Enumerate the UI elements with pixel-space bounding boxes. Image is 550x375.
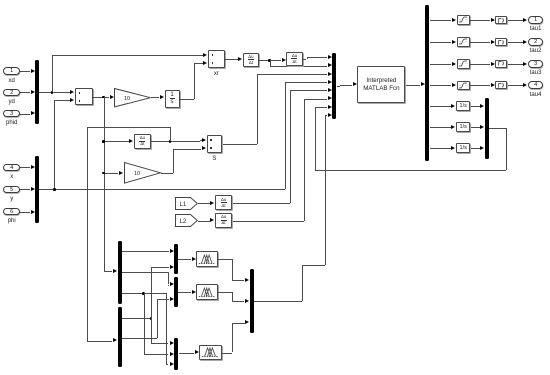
wire mux M8 out bbox=[254, 301, 302, 302]
inport 1 xd bbox=[3, 67, 20, 74]
wire feedback down bbox=[506, 128, 507, 170]
wire riser M2 out to Sum1 in2 bbox=[54, 100, 55, 189]
wire gain 10 to integrator bbox=[151, 97, 160, 98]
wire to mux M7 in3 bbox=[166, 364, 168, 365]
inport 4 x bbox=[3, 164, 20, 171]
svg-text:10: 10 bbox=[124, 96, 130, 102]
junction derivative 3 out bbox=[169, 140, 172, 143]
wire demux D1 out7 bbox=[430, 148, 451, 149]
mux M1 (xd,yd,phid) bbox=[35, 60, 39, 124]
wire D2 out3 bbox=[122, 293, 166, 294]
transfer fcn block 1/s 2 bbox=[456, 122, 470, 132]
label tau3 bbox=[506, 70, 550, 76]
from tag L1 bbox=[175, 197, 198, 210]
wire into sum S in2 bbox=[173, 149, 202, 150]
outport 4 tau4 bbox=[528, 81, 544, 89]
wire to mux M3 in5 bbox=[290, 90, 327, 91]
wire riser to mux M3 in8 bbox=[325, 115, 326, 265]
outport 2 tau2 bbox=[528, 38, 544, 46]
wire jog bbox=[340, 85, 341, 87]
sum block xr bbox=[208, 50, 225, 68]
wire fuzzy 2 out bbox=[218, 292, 232, 293]
wire down bbox=[232, 292, 233, 301]
junction feed derivative 3 bbox=[102, 140, 105, 143]
wire L1 to derivative 4 bbox=[198, 203, 210, 204]
mux M6 fuzzy2 input bbox=[174, 277, 178, 307]
wire mux M3 out bbox=[337, 86, 340, 87]
wire phi to mux M2 bbox=[20, 212, 30, 213]
wire to mux M3 in6 bbox=[304, 99, 327, 100]
wire fuzzy 3 out bbox=[222, 353, 232, 354]
rate limiter block 2 bbox=[495, 38, 507, 46]
derivative block du/dt 1 bbox=[243, 53, 259, 67]
mux M8 fuzzy outputs bbox=[250, 269, 254, 333]
derivative block du/dt 2 bbox=[286, 52, 302, 66]
junction D2 out3 bbox=[142, 292, 145, 295]
wire fuzzy 1 out bbox=[218, 259, 232, 260]
wire to mux M3 in8 bbox=[325, 115, 327, 116]
wire to outport tau2 bbox=[508, 42, 523, 43]
wire to mux M3 in1 bbox=[307, 57, 328, 58]
wire feedback riser to mux M3 in7 bbox=[315, 107, 316, 171]
wire up bbox=[157, 299, 158, 338]
wire mux M1 out to Sum1 bbox=[39, 92, 70, 93]
label y bbox=[0, 196, 42, 202]
saturation block 1 bbox=[457, 15, 470, 25]
junction after derivative 1 bbox=[268, 59, 271, 62]
wire derivative 5 out bbox=[233, 221, 304, 222]
wire to outport tau4 bbox=[508, 85, 523, 86]
wire D3 out1 bbox=[122, 318, 151, 319]
wire riser to top rail bbox=[52, 55, 53, 92]
wire into MATLAB Fcn bbox=[340, 85, 352, 86]
wire to mux M7 in1 bbox=[151, 343, 168, 344]
wire to mux M6 in2 bbox=[157, 299, 168, 300]
wire into sum S in1 bbox=[200, 140, 202, 141]
demux D3 derivative vector bbox=[118, 307, 122, 367]
from tag L2 bbox=[175, 214, 198, 227]
wire mux M2 out rail bbox=[39, 189, 285, 190]
wire error vector down to demux D2 bbox=[104, 97, 105, 271]
wire up bbox=[232, 323, 233, 353]
wire branch down bbox=[270, 60, 271, 65]
wire branch left rail bbox=[87, 127, 170, 128]
label yd bbox=[0, 99, 42, 105]
wire to mux M7 in2 bbox=[144, 354, 169, 355]
sum block Sum1 (reference - feedback) bbox=[75, 88, 93, 105]
wire saturation 3 out bbox=[470, 64, 490, 65]
inport 5 y bbox=[3, 186, 20, 193]
wire into Sum xr in2 bbox=[194, 63, 203, 64]
wire riser to Sum xr in2 bbox=[194, 63, 195, 99]
wire feedback rail bbox=[315, 170, 506, 171]
function block Interpreted MATLAB Fcn bbox=[357, 66, 405, 103]
wire into Sum1 in2 bbox=[54, 100, 70, 101]
label tau4 bbox=[506, 92, 550, 98]
wire to mux M5 in2 bbox=[151, 267, 169, 268]
mux M5 fuzzy1 input bbox=[174, 244, 178, 275]
saturation block 4 bbox=[457, 81, 470, 91]
wire top rail to Sum xr bbox=[52, 55, 203, 56]
wire to mux M8 in1 bbox=[232, 280, 244, 281]
wire to mux M3 in7 bbox=[315, 107, 327, 108]
derivative block du/dt 4 bbox=[215, 195, 233, 211]
gain block K=10 second bbox=[124, 162, 162, 184]
wire riser to mux M3 in4 bbox=[285, 82, 286, 189]
wire xr to derivative 1 bbox=[225, 59, 238, 60]
wire branch up bbox=[170, 127, 171, 141]
wire riser S to mux M3 in3 bbox=[257, 74, 258, 144]
svg-text:L2: L2 bbox=[180, 219, 187, 225]
transfer fcn block 1/s 3 bbox=[456, 143, 470, 153]
mux M3 main 8-input bbox=[332, 53, 336, 119]
wire to derivative 3 bbox=[104, 141, 129, 142]
mux M4 (integrator outputs) bbox=[485, 98, 489, 159]
wire derivative 2 out jog bbox=[303, 59, 307, 60]
wire riser to mux M3 in5 bbox=[290, 90, 291, 202]
wire mux M5 to fuzzy 1 bbox=[178, 259, 191, 260]
label phi bbox=[0, 218, 42, 224]
wire to outport tau1 bbox=[508, 20, 523, 21]
wire to outport tau3 bbox=[508, 64, 523, 65]
wire 1/s 2 to mux M4 bbox=[471, 127, 480, 128]
wire into demux D2 bbox=[104, 271, 113, 272]
gain block K=10 bbox=[114, 88, 152, 108]
label S bbox=[184, 156, 244, 162]
fuzzy logic controller 2 bbox=[196, 284, 218, 300]
junction on error vector bbox=[102, 96, 105, 99]
junction M2 out bbox=[53, 188, 56, 191]
wire sum S out bbox=[223, 144, 257, 145]
wire jog up bbox=[307, 57, 308, 59]
wire 1/s 1 to mux M4 bbox=[471, 106, 480, 107]
wire vertical D3 out1 bbox=[151, 267, 152, 343]
wire saturation 2 out bbox=[470, 42, 490, 43]
wire down to mux M7 in2 bbox=[144, 293, 145, 353]
mux M7 fuzzy3 input bbox=[174, 338, 178, 370]
wire to mux M8 in3 bbox=[232, 323, 245, 324]
wire xd to mux M1 bbox=[20, 71, 30, 72]
wire riser to sum S in2 bbox=[173, 149, 174, 173]
wire y to mux M2 bbox=[20, 189, 30, 190]
label xd bbox=[0, 78, 42, 84]
fuzzy logic controller 3 bbox=[199, 345, 222, 361]
rate limiter block 1 bbox=[495, 16, 507, 24]
wire jog bbox=[200, 140, 201, 142]
wire down bbox=[232, 259, 233, 280]
outport 1 tau1 bbox=[528, 16, 544, 24]
wire down to demux D3 bbox=[87, 127, 88, 341]
saturation block 3 bbox=[457, 59, 470, 69]
label phid bbox=[0, 120, 42, 126]
derivative block du/dt 5 bbox=[215, 213, 233, 229]
integrator block 1/s bbox=[165, 90, 180, 108]
wire 1/s 3 to mux M4 bbox=[471, 148, 480, 149]
inport 3 phid bbox=[3, 110, 20, 117]
wire derivative 1 out bbox=[259, 60, 281, 61]
wire D2 out1 to mux M5 in1 bbox=[122, 251, 169, 252]
junction on M1 output bbox=[51, 91, 54, 94]
wire right bbox=[302, 265, 325, 266]
wire D3 out2 bbox=[122, 338, 158, 339]
wire mux M6 to fuzzy 2 bbox=[178, 292, 191, 293]
wire derivative 4 out bbox=[233, 203, 291, 204]
wire Fcn to demux D1 bbox=[406, 85, 420, 86]
wire to mux M3 in2 bbox=[270, 66, 328, 67]
wire Sum1 to gain 10 bbox=[93, 97, 109, 98]
wire saturation 1 out bbox=[470, 20, 490, 21]
wire to mux M3 in4 bbox=[285, 82, 327, 83]
wire riser to mux M3 in6 bbox=[304, 99, 305, 221]
wire to mux M6 in1 bbox=[168, 285, 169, 286]
junction D3 out1 bbox=[150, 317, 153, 320]
wire to gain 10 second bbox=[104, 173, 119, 174]
label tau1 bbox=[506, 26, 550, 32]
wire D2 out2 bbox=[122, 272, 168, 273]
rate limiter block 4 bbox=[495, 81, 507, 89]
svg-text:10: 10 bbox=[134, 171, 140, 177]
wire mux M7 to fuzzy 3 bbox=[179, 353, 194, 354]
label tau2 bbox=[506, 48, 550, 54]
wire down to mux M7 in3 bbox=[166, 293, 167, 364]
wire to mux M3 in3 bbox=[257, 74, 328, 75]
wire into demux D3 bbox=[87, 341, 112, 342]
fuzzy logic controller 1 bbox=[196, 251, 218, 267]
demux D1 7-output bbox=[425, 5, 429, 162]
saturation block 2 bbox=[457, 37, 470, 47]
wire up bbox=[302, 265, 303, 302]
label xr bbox=[186, 71, 246, 77]
wire phid to mux M1 bbox=[20, 114, 30, 115]
wire down bbox=[168, 272, 169, 284]
wire yd to mux M1 bbox=[20, 92, 30, 93]
wire derivative 3 out bbox=[151, 141, 200, 142]
junction feed gain second bbox=[102, 172, 105, 175]
wire demux D1 out2 bbox=[430, 42, 452, 43]
wire gain second out bbox=[161, 173, 173, 174]
wire x to mux M2 bbox=[20, 167, 30, 168]
wire mux M4 out bbox=[489, 128, 506, 129]
transfer fcn block 1/s 1 bbox=[456, 101, 470, 111]
rate limiter block 3 bbox=[495, 60, 507, 68]
inport 2 yd bbox=[3, 89, 20, 96]
sum block S bbox=[207, 135, 223, 153]
wire demux D1 out4 bbox=[430, 85, 452, 86]
mux M2 (x,y,phi) bbox=[35, 156, 39, 223]
wire demux D1 out3 bbox=[430, 64, 452, 65]
wire L2 to derivative 5 bbox=[198, 221, 210, 222]
wire saturation 4 out bbox=[470, 85, 490, 86]
inport 6 phi bbox=[3, 208, 20, 215]
wire integrator out bbox=[180, 99, 194, 100]
derivative block du/dt 3 bbox=[134, 134, 151, 149]
svg-text:L1: L1 bbox=[180, 201, 187, 207]
wire demux D1 out1 bbox=[430, 20, 452, 21]
wire demux D1 out6 bbox=[430, 127, 451, 128]
wire to mux M8 in2 bbox=[232, 301, 244, 302]
wire demux D1 out5 bbox=[430, 106, 451, 107]
label x bbox=[0, 174, 42, 180]
demux D2 error vector bbox=[118, 241, 122, 304]
outport 3 tau3 bbox=[528, 60, 544, 68]
